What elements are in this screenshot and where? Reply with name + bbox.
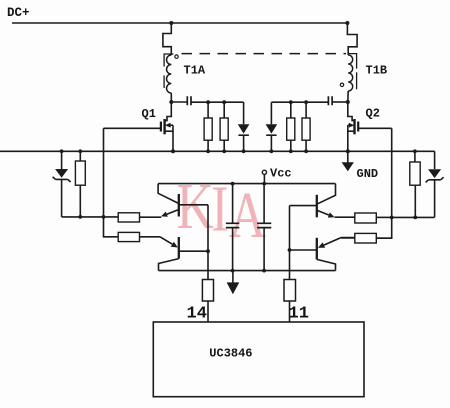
- resistor R7 (left driver lower emitter): [118, 232, 160, 241]
- transformer T1A phase dot: [175, 55, 178, 58]
- svg-text:DC+: DC+: [7, 6, 30, 20]
- resistor R3 (right snubber): [287, 102, 295, 151]
- svg-text:I: I: [211, 171, 228, 245]
- junction R3 bottom on rail: [289, 149, 293, 153]
- wire Q2 gate vertical: [376, 128, 391, 238]
- svg-text:14: 14: [187, 305, 207, 324]
- junction C3 bottom: [231, 269, 235, 273]
- node Vcc terminal: [262, 170, 266, 183]
- wire C2 to Q2 drain node: [332, 101, 348, 103]
- resistor R11 (pin14 base resistor): [202, 280, 213, 323]
- transformer T1A winding: [167, 55, 172, 93]
- junction C3 top: [231, 182, 235, 186]
- transistor Q5 (right driver NPN): [290, 184, 336, 218]
- wire Q1 gate vertical: [104, 128, 119, 237]
- transformer T1A core bracket: [164, 54, 173, 88]
- wire T1A top jog: [163, 23, 171, 55]
- junction D2 bottom on rail: [270, 149, 274, 153]
- svg-text:A: A: [229, 178, 266, 252]
- junction R5 bottom: [78, 215, 82, 219]
- junction T1B/Q2 drain node: [346, 100, 350, 104]
- wire left gate network bottom: [62, 216, 119, 218]
- capacitor C2 (snubber right): [328, 96, 332, 105]
- junction left snubber R1 top: [206, 100, 210, 104]
- transistor Q1 (N-MOSFET): [104, 102, 174, 151]
- wire C1 to left snubber: [191, 101, 244, 103]
- wire T1B top jog: [347, 23, 357, 55]
- wire T1A node to C1: [171, 101, 187, 103]
- wire right driver bases to pin11: [289, 206, 291, 280]
- junction R4 bottom on rail: [304, 149, 308, 153]
- junction T1A/Q1 drain node: [169, 100, 173, 104]
- resistor R1 (left snubber): [204, 102, 212, 151]
- junction C4 bottom: [262, 269, 266, 273]
- resistor R8 (right driver upper emitter): [335, 213, 392, 223]
- junction left gate node: [102, 215, 106, 219]
- svg-text:T1A: T1A: [184, 64, 206, 78]
- svg-text:GND: GND: [357, 167, 379, 181]
- junction right snubber R4 top: [304, 100, 308, 104]
- ground GND symbol at Q2 source: [342, 151, 354, 171]
- junction left zener top on rail: [60, 149, 64, 153]
- svg-text:11: 11: [289, 305, 309, 324]
- capacitor C3 (Vcc bypass left): [226, 184, 239, 271]
- capacitor C4 (Vcc bypass right): [257, 184, 271, 271]
- resistor R4 (right snubber): [302, 102, 310, 151]
- wire dashed coupling line: [182, 53, 347, 55]
- transistor Q3 (left driver NPN): [158, 184, 208, 217]
- junction right gate node: [390, 216, 394, 220]
- resistor R5 (left gate bleed): [75, 151, 85, 217]
- transformer T1B phase dot: [340, 83, 343, 86]
- junction left resistor top on rail: [78, 149, 82, 153]
- resistor R12 (pin11 base resistor): [284, 280, 296, 323]
- wire left driver bases to pin14: [207, 205, 209, 280]
- diode D1 (left snubber): [238, 102, 250, 151]
- junction Q2 source on rail: [346, 149, 350, 153]
- ground symbol below C3: [227, 271, 240, 295]
- diode ZD1 (left zener): [53, 151, 71, 217]
- junction left bases: [206, 249, 210, 253]
- wire mid ground rail: [0, 150, 435, 152]
- diode D2 (right snubber): [266, 102, 278, 151]
- junction T1B tap on DC+ rail: [345, 21, 349, 25]
- junction Q1 source on rail: [171, 149, 175, 153]
- svg-text:T1B: T1B: [366, 64, 388, 78]
- transistor Q6 (right driver PNP): [290, 238, 341, 271]
- watermark KIA: [177, 169, 267, 252]
- wire right network bottom: [392, 216, 435, 218]
- junction right bases: [288, 248, 292, 252]
- junction R1 bottom on rail: [206, 149, 210, 153]
- op-amp U1 UC3846 box: [153, 322, 364, 397]
- svg-text:Q2: Q2: [366, 107, 380, 121]
- svg-text:Vcc: Vcc: [270, 167, 292, 181]
- transistor Q4 (left driver PNP): [159, 237, 209, 271]
- junction T1A tap on DC+ rail: [169, 21, 173, 25]
- resistor R2 (left snubber): [220, 102, 228, 151]
- junction right snubber R3 top: [289, 100, 293, 104]
- diode ZD2 (right zener): [426, 151, 444, 217]
- wire T1A bottom lead: [170, 93, 172, 102]
- transformer T1B winding: [348, 55, 353, 91]
- transistor Q2 (N-MOSFET): [348, 102, 392, 151]
- wire top DC+ rail: [12, 22, 347, 24]
- wire driver Vcc top line: [158, 183, 335, 185]
- junction D1 bottom on rail: [242, 149, 246, 153]
- junction R2 bottom on rail: [222, 149, 226, 153]
- junction right resistor bottom: [413, 216, 417, 220]
- resistor R6 (left driver upper emitter): [118, 213, 161, 222]
- wire T1B bottom lead: [347, 91, 349, 102]
- svg-text:UC3846: UC3846: [209, 347, 252, 361]
- resistor R9 (right driver lower emitter): [341, 233, 392, 243]
- capacitor C1 (snubber left): [187, 96, 191, 105]
- wire right snubber top: [271, 101, 328, 103]
- transformer T1B core bracket: [348, 54, 356, 90]
- resistor R10 (right gate bleed): [410, 151, 420, 217]
- junction right resistor top on rail: [413, 149, 417, 153]
- junction C4 top / Vcc node: [262, 182, 266, 186]
- svg-text:Q1: Q1: [142, 107, 156, 121]
- wire driver ground bottom line: [159, 270, 336, 272]
- junction left snubber R2 top: [222, 100, 226, 104]
